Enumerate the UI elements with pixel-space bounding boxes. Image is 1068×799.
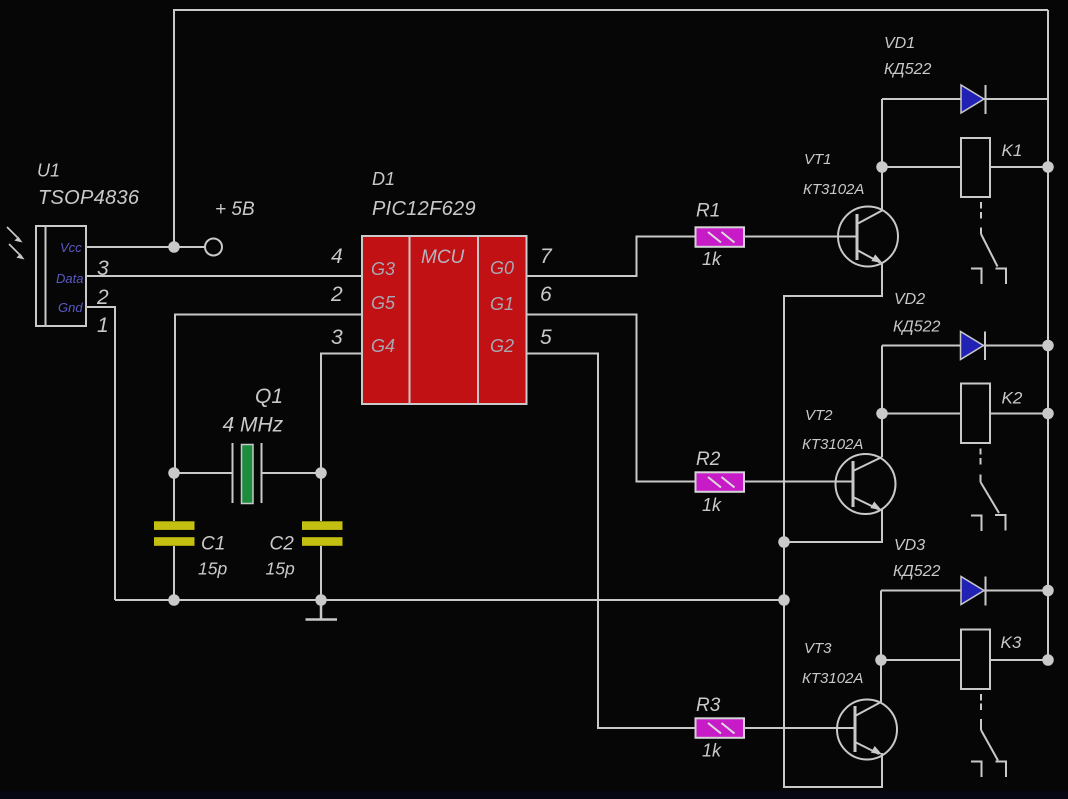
svg-text:6: 6 <box>540 283 552 306</box>
svg-text:КТ3102А: КТ3102А <box>802 436 863 453</box>
diode VD3 <box>961 577 986 606</box>
svg-text:4 MHz: 4 MHz <box>223 414 284 437</box>
relay K2 coil <box>961 384 990 444</box>
wire G0 to R1 <box>527 237 696 277</box>
svg-text:K3: K3 <box>1001 633 1022 652</box>
wire VD2 row <box>882 345 1048 347</box>
svg-text:PIC12F629: PIC12F629 <box>372 198 476 220</box>
node K1 right <box>1042 161 1054 173</box>
svg-text:G1: G1 <box>490 294 514 314</box>
wire K1 coil row <box>882 166 1048 168</box>
node VD2 rail <box>1042 340 1054 352</box>
svg-text:1k: 1k <box>702 495 722 515</box>
resistor R1 <box>696 227 745 247</box>
bottom scan band <box>0 791 1068 799</box>
wire VD1 row <box>882 98 1048 100</box>
relay K2 contact <box>971 449 1006 532</box>
node emitter bus ground <box>778 594 790 606</box>
svg-text:1k: 1k <box>702 249 722 269</box>
relay K3 coil <box>961 630 990 690</box>
node crystal right <box>315 467 327 479</box>
wire VT3 collector up <box>880 591 882 703</box>
wire right rail <box>1047 10 1049 660</box>
svg-text:1k: 1k <box>702 741 722 761</box>
svg-text:5: 5 <box>540 326 552 349</box>
diode VD1 <box>961 85 986 114</box>
wire VT2 collector up <box>881 346 883 458</box>
svg-text:D1: D1 <box>372 169 395 189</box>
wire R1 to VT1 base <box>744 236 857 238</box>
node K3 right <box>1042 654 1054 666</box>
relay K1 contact <box>971 202 1006 284</box>
wire G1 to R2 <box>527 315 696 482</box>
svg-text:Vcc: Vcc <box>60 240 82 255</box>
svg-text:C2: C2 <box>270 534 295 555</box>
svg-text:R3: R3 <box>696 695 721 716</box>
wire ground rail <box>115 599 784 601</box>
node C1 ground <box>168 594 180 606</box>
svg-text:2: 2 <box>96 286 109 309</box>
svg-text:Q1: Q1 <box>255 385 283 408</box>
wire crystal left lead <box>174 472 232 474</box>
svg-text:Gnd: Gnd <box>58 300 83 315</box>
wire VD3 row <box>881 590 1048 592</box>
node K2 right <box>1042 408 1054 420</box>
node VT3 collector junction <box>875 654 887 666</box>
wire G5 to crystal left <box>175 315 362 474</box>
svg-text:4: 4 <box>331 245 343 268</box>
wire Gnd <box>86 307 115 600</box>
IR arrow 2 <box>9 244 25 260</box>
svg-text:VT2: VT2 <box>805 407 833 424</box>
transistor VT1 <box>838 207 898 267</box>
power terminal +5B <box>205 239 222 256</box>
IR arrow 1 <box>7 227 23 243</box>
wire +5V drop <box>173 10 175 247</box>
wire R2 to VT2 base <box>744 481 853 483</box>
wire Data to G3 <box>86 275 362 277</box>
svg-text:G4: G4 <box>371 336 395 356</box>
svg-text:2: 2 <box>330 283 343 306</box>
wire C1 upper <box>173 473 175 521</box>
node emitter bus upper <box>778 536 790 548</box>
node +5V junction <box>168 241 180 253</box>
resistor R3 <box>696 718 745 738</box>
svg-text:VT1: VT1 <box>804 151 832 168</box>
svg-text:7: 7 <box>540 245 553 268</box>
svg-text:K1: K1 <box>1002 141 1023 160</box>
node VD3 rail <box>1042 585 1054 597</box>
wire C2 lower <box>320 546 322 600</box>
relay K3 contact <box>971 694 1006 777</box>
svg-text:Data: Data <box>56 271 83 286</box>
wire Vcc <box>86 246 205 248</box>
resistor R2 <box>696 472 745 492</box>
svg-text:15p: 15p <box>198 559 227 579</box>
wire C1 lower <box>173 546 175 600</box>
svg-text:КТ3102А: КТ3102А <box>803 181 864 198</box>
node crystal left <box>168 467 180 479</box>
svg-text:TSOP4836: TSOP4836 <box>38 187 140 209</box>
wire VT1 emitter down <box>784 262 882 600</box>
svg-text:MCU: MCU <box>421 247 465 268</box>
svg-text:R1: R1 <box>696 201 720 222</box>
svg-text:КД522: КД522 <box>884 61 931 78</box>
svg-text:КД522: КД522 <box>893 319 940 336</box>
wire C2 upper <box>320 473 322 521</box>
IC U1 TSOP4836 body <box>36 226 86 326</box>
svg-text:G3: G3 <box>371 259 395 279</box>
crystal Q1 <box>233 443 262 504</box>
capacitor C2 <box>302 521 343 546</box>
node VT2 collector junction <box>876 408 888 420</box>
wire crystal right lead <box>262 472 321 474</box>
transistor VT2 <box>836 454 896 514</box>
svg-text:15p: 15p <box>266 559 295 579</box>
svg-text:VD2: VD2 <box>894 291 925 308</box>
node C2 ground <box>315 594 327 606</box>
svg-text:G0: G0 <box>490 258 514 278</box>
node VT1 collector junction <box>876 161 888 173</box>
wire VT3 emitter down <box>784 600 882 787</box>
svg-text:1: 1 <box>97 314 109 337</box>
svg-text:R2: R2 <box>696 449 721 470</box>
wire K3 coil row <box>881 659 1048 661</box>
transistor VT3 <box>837 700 897 760</box>
svg-text:G5: G5 <box>371 293 396 313</box>
svg-text:K2: K2 <box>1002 389 1023 408</box>
MCU D1 PIC12F629 body <box>362 236 527 404</box>
svg-text:VT3: VT3 <box>804 640 832 657</box>
svg-text:VD1: VD1 <box>884 35 915 52</box>
svg-text:G2: G2 <box>490 336 514 356</box>
wire K2 coil row <box>882 413 1048 415</box>
svg-text:VD3: VD3 <box>894 537 925 554</box>
svg-text:КТ3102А: КТ3102А <box>802 670 863 687</box>
svg-text:U1: U1 <box>37 161 60 181</box>
wire top rail <box>173 9 1048 11</box>
wire G4 to crystal right <box>321 354 362 474</box>
wire G2 to R3 <box>527 354 696 729</box>
svg-text:+ 5B: + 5B <box>215 199 255 220</box>
wire VT1 collector up <box>881 99 883 210</box>
svg-text:КД522: КД522 <box>893 563 940 580</box>
capacitor C1 <box>154 521 195 546</box>
ground symbol <box>306 600 338 620</box>
wire R3 to VT3 base <box>744 727 855 729</box>
relay K1 coil <box>961 138 990 197</box>
svg-text:C1: C1 <box>201 534 225 555</box>
diode VD2 <box>961 332 986 361</box>
svg-text:3: 3 <box>331 326 343 349</box>
wire VT2 emitter down <box>784 509 882 542</box>
